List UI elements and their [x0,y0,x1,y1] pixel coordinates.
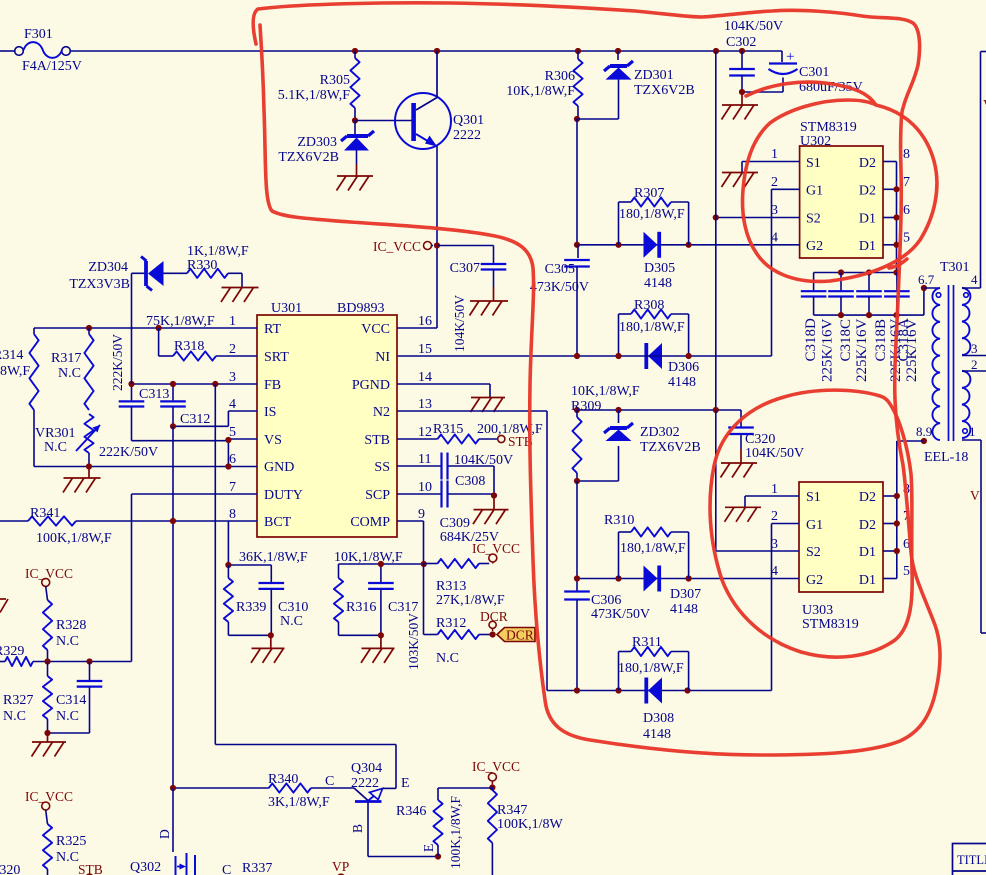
varistor VR301 [35,414,100,467]
svg-text:U301: U301 [271,301,302,316]
svg-text:104K/50V: 104K/50V [454,453,513,468]
svg-text:G1: G1 [806,184,823,199]
ground U302 pin1 [722,173,759,188]
wire R327 C314 bottom [48,732,90,734]
node C318 bottom [838,312,900,318]
wire U301 pin11 SS [397,465,442,467]
svg-text:VP: VP [332,859,349,874]
svg-text:DUTY: DUTY [264,488,303,503]
diode D307 [644,566,702,618]
transistor Q304 [325,761,410,802]
svg-text:225K/16V: 225K/16V [854,319,870,383]
resistor R305 [278,51,360,121]
node VS [225,437,231,443]
ground ZD303 [337,164,374,191]
svg-text:D2: D2 [859,156,876,171]
ground C308 C309 [473,496,509,525]
svg-text:Q304: Q304 [351,761,382,776]
svg-text:3K,1/8W,F: 3K,1/8W,F [268,795,330,810]
svg-text:8: 8 [229,507,236,522]
svg-text:1: 1 [771,482,778,497]
svg-text:2222: 2222 [351,776,379,791]
node C312 bottom [170,423,176,429]
wire BCT row [0,520,257,522]
label 10K [334,550,403,565]
node R347 top [489,784,495,790]
svg-text:DCR: DCR [480,609,508,624]
svg-text:ZD304: ZD304 [88,260,128,275]
net DCR flag [480,609,508,631]
net VP flag [332,859,349,875]
wire Q301 emitter to VCC [436,146,438,328]
svg-text:10K,1/8W,F: 10K,1/8W,F [506,84,575,99]
capacitor C301 [742,49,863,95]
svg-text:E: E [401,776,410,791]
label 320 partial [0,863,20,875]
node FB row [128,381,218,387]
label B rot [350,824,365,833]
wire R306 down to D305 row [576,119,578,245]
wire U301 pin10 SCP [397,493,442,495]
diode D306 [646,343,699,390]
svg-text:IC_VCC: IC_VCC [25,789,73,804]
svg-text:GND: GND [264,460,294,475]
svg-text:D306: D306 [668,360,699,375]
svg-text:100K,1/8W: 100K,1/8W [497,817,564,832]
svg-text:2222: 2222 [453,128,481,143]
wire Q304 base [368,802,438,857]
svg-text:SRT: SRT [264,350,289,365]
svg-text:STB: STB [78,862,103,875]
svg-text:6: 6 [903,203,910,218]
svg-text:C306: C306 [591,593,621,608]
node U302 drain pins [893,186,899,248]
svg-text:R340: R340 [268,772,298,787]
ground C301 C302 [722,92,759,120]
svg-text:R329: R329 [0,644,24,659]
svg-text:D2: D2 [859,184,876,199]
wire U301 pin9 COMP [397,521,424,564]
svg-text:C305: C305 [545,262,575,277]
svg-text:N.C: N.C [58,366,81,381]
resistor R340 [173,772,354,810]
svg-text:FB: FB [264,378,281,393]
svg-text:104K/50V: 104K/50V [724,19,783,34]
svg-text:F301: F301 [24,27,53,42]
labels C318 values [803,318,920,382]
svg-text:U303: U303 [802,603,833,618]
node DCR [490,631,496,637]
wire BCT to R339 [228,521,271,565]
capacitors C318D C318C C318B C318A [801,273,910,316]
svg-text:7: 7 [229,480,236,495]
svg-text:R309: R309 [571,399,601,414]
capacitor C320 [728,410,804,461]
net STB flag [498,434,533,449]
net STB flag bottom [78,862,103,875]
svg-text:473K/50V: 473K/50V [591,607,650,622]
diode D308 [643,678,674,743]
node C317 top [378,561,384,567]
svg-text:100K,1/8W,F: 100K,1/8W,F [448,795,463,869]
svg-text:S2: S2 [806,212,821,227]
resistor R314 [0,328,39,467]
svg-text:10: 10 [418,480,432,495]
wire T301 pin3 [962,355,986,357]
wire IS jog [173,411,257,426]
svg-text:ZD302: ZD302 [640,425,680,440]
resistor R330 [187,244,249,288]
svg-text:4: 4 [229,397,236,412]
wire C318 bottom bus [814,288,924,315]
svg-text:IC_VCC: IC_VCC [25,566,73,581]
ground C320 [721,449,758,478]
svg-text:C313: C313 [139,387,169,402]
wire COMP-R312 vertical [423,564,425,635]
wire FB-Q304 vertical [215,384,396,788]
wire U303 pin4 G2 / D307 row [577,578,799,580]
node R313 row [421,561,427,567]
node R339 top [225,562,231,568]
wire R313 row left [339,563,424,565]
svg-text:4148: 4148 [668,375,696,390]
svg-text:S1: S1 [806,490,821,505]
wire S-bus vertical [715,51,717,410]
svg-text:2: 2 [971,357,978,372]
svg-text:Q301: Q301 [453,113,484,128]
resistor R317 [51,328,94,410]
svg-text:VCC: VCC [361,322,390,337]
svg-text:N.C: N.C [56,634,79,649]
svg-text:C: C [222,863,231,875]
svg-text:COMP: COMP [350,515,390,530]
label 36K [239,550,308,565]
wire U302 pin3 S2 [716,217,800,219]
wire DUTY row [132,494,258,662]
node D308 row [574,687,691,693]
svg-text:S2: S2 [806,545,821,560]
svg-text:Q302: Q302 [130,860,161,875]
resistor R325 [43,810,86,875]
wire RT row [34,327,257,329]
svg-text:C307: C307 [450,261,480,276]
capacitor C308 [442,453,514,496]
node T301 pin89 [921,438,927,444]
svg-text:E: E [421,844,436,852]
svg-text:27K,1/8W,F: 27K,1/8W,F [436,593,505,608]
resistor R311 [618,635,689,691]
svg-text:104K/50V: 104K/50V [745,446,804,461]
svg-text:16: 16 [418,314,432,329]
net IC_VCC flag R313 [472,541,520,564]
svg-text:10K,1/8W,F: 10K,1/8W,F [334,550,403,565]
zener ZD304 [69,257,187,385]
label R337 [222,861,272,875]
node C318 top [838,269,900,275]
svg-text:5: 5 [903,231,910,246]
capacitor C312 [160,384,210,427]
label 103K rot [406,613,421,670]
node Q304 base-R346 [435,853,441,859]
svg-text:PGND: PGND [352,378,390,393]
IC U302 body [771,120,910,258]
svg-text:R316: R316 [346,600,376,615]
svg-text:100K,1/8W,F: 100K,1/8W,F [36,531,112,546]
svg-text:R347: R347 [497,803,527,818]
svg-text:1: 1 [771,147,778,162]
svg-text:1: 1 [969,424,976,439]
wire U302 pin4 G2 / D305 row [577,244,800,246]
IC U303 body [771,482,910,632]
resistor R327 [3,662,52,734]
wire U303 pin1 [745,496,799,507]
wire FB row [132,383,258,385]
ground partial left edge [0,599,8,613]
diode D305 [644,232,676,291]
svg-text:C312: C312 [180,412,210,427]
net IC_VCC R347 [472,759,520,784]
svg-text:F4A/125V: F4A/125V [22,59,82,74]
svg-text:D308: D308 [643,711,674,726]
svg-text:R313: R313 [436,579,466,594]
svg-text:R307: R307 [634,186,664,201]
svg-text:1K,1/8W,F: 1K,1/8W,F [187,244,249,259]
wire NI row [397,355,772,357]
svg-text:NI: NI [375,350,390,365]
ground U303 pin1 [725,507,762,522]
transformer T301 [916,260,978,465]
net IC_VCC R328 [25,566,73,586]
svg-text:15: 15 [418,342,432,357]
node GND row [86,463,232,469]
ground R327 C314 [32,733,67,757]
svg-text:TZX6V2B: TZX6V2B [278,150,339,165]
svg-text:IC_VCC: IC_VCC [373,239,421,254]
title block [953,844,986,875]
svg-text:STM8319: STM8319 [802,617,859,632]
svg-text:R308: R308 [634,298,664,313]
svg-text:4148: 4148 [670,602,698,617]
svg-text:12: 12 [418,425,432,440]
svg-text:3: 3 [229,370,236,385]
node R340 left [170,785,176,791]
svg-text:N.C: N.C [436,651,459,666]
resistor R316 [334,564,376,635]
resistor R308 [619,298,689,356]
svg-text:U302: U302 [800,134,831,149]
svg-text:VR301: VR301 [35,426,75,441]
zener ZD302 [604,410,701,481]
ground GND row [63,467,101,493]
svg-text:N.C: N.C [44,440,67,455]
capacitor C317 [368,564,418,635]
svg-text:N.C: N.C [280,614,303,629]
node T301 pin67 [918,272,935,291]
wire IC_VCC to C307 [432,246,494,264]
svg-text:222K/50V: 222K/50V [110,334,125,391]
svg-text:C318C: C318C [838,319,854,362]
svg-text:R341: R341 [30,506,60,521]
svg-text:R315: R315 [433,422,463,437]
resistor R312 [424,616,493,666]
svg-text:R310: R310 [604,513,634,528]
wire T301 pin4 [962,52,986,289]
svg-text:180,1/8W,F: 180,1/8W,F [618,661,684,676]
svg-text:75K,1/8W,F: 75K,1/8W,F [146,314,215,329]
node rail junctions [352,48,745,54]
wire U301 pin16 VCC [397,327,437,329]
svg-text:R346: R346 [396,804,426,819]
svg-text:R311: R311 [632,635,662,650]
zener ZD303 [278,121,374,166]
svg-text:2: 2 [771,509,778,524]
annotation giant loop [253,3,940,755]
wire U303 pin3 S2 [716,410,799,551]
capacitor C309 [440,481,499,546]
svg-text:R312: R312 [436,616,466,631]
annotation circle U302 [743,82,937,281]
svg-text:STB: STB [364,433,390,448]
svg-text:+: + [786,49,794,65]
svg-text:8: 8 [903,147,910,162]
svg-text:TZX3V3B: TZX3V3B [69,277,130,292]
wire U301 pin14 PGND [397,384,490,398]
wire VS stub [228,439,257,467]
node D305 row [574,242,692,248]
svg-text:C302: C302 [726,35,756,50]
transistor Q301 [395,51,484,149]
ground R330 [221,288,259,303]
svg-text:C308: C308 [455,474,485,489]
svg-text:IS: IS [264,405,276,420]
svg-text:R317: R317 [51,351,81,366]
svg-text:4148: 4148 [644,276,672,291]
svg-text:222K/50V: 222K/50V [99,445,158,460]
capacitor C306 [564,481,650,691]
svg-text:4: 4 [971,272,978,287]
wire GND row [34,466,257,468]
svg-text:N.C: N.C [56,709,79,724]
svg-text:10K,1/8W,F: 10K,1/8W,F [571,384,640,399]
svg-text:S1: S1 [806,156,821,171]
svg-text:TZX6V2B: TZX6V2B [634,83,695,98]
transistor Q302 [130,788,195,875]
wire C318 top bus [814,272,897,274]
svg-text:R306: R306 [545,69,575,84]
svg-text:R305: R305 [320,73,350,88]
svg-text:5: 5 [903,564,910,579]
ground C307 [470,287,509,316]
svg-text:BD9893: BD9893 [337,301,384,316]
svg-text:D307: D307 [670,587,701,602]
ground R339 C310 [251,635,285,663]
annotation circle U303 [710,390,912,657]
svg-text:DCR: DCR [506,628,534,643]
svg-text:R318: R318 [174,339,204,354]
svg-text:7: 7 [903,175,910,190]
svg-text:C314: C314 [56,693,86,708]
svg-text:180,1/8W,F: 180,1/8W,F [619,320,685,335]
wire R309-ZD302 bottom [574,478,619,484]
wire Q301 base [355,120,412,122]
wire U302 pin2 G1 [772,189,800,356]
wire IS-BCT vertical [172,426,174,788]
svg-text:C320: C320 [745,432,775,447]
svg-text:G2: G2 [806,239,823,254]
svg-text:C317: C317 [388,600,418,615]
svg-text:SCP: SCP [365,488,390,503]
svg-text:180,1/8W,F: 180,1/8W,F [619,207,685,222]
svg-text:13: 13 [418,397,432,412]
wire U303 drain bus [883,441,924,579]
svg-text:4148: 4148 [643,727,671,742]
resistor R341 [28,506,112,546]
node R327 bottom [44,730,50,736]
svg-text:C: C [325,774,334,789]
net IC_VCC R325 [25,789,73,810]
svg-text:N2: N2 [373,405,390,420]
svg-text:225K/16V: 225K/16V [904,319,920,383]
label C307 value [452,295,467,352]
resistor R307 [619,186,689,245]
resistor R318 [159,328,257,361]
node C302-C301 gnd [739,89,745,95]
svg-text:C318D: C318D [803,318,819,362]
svg-text:STM8319: STM8319 [800,120,857,135]
svg-text:473K/50V: 473K/50V [530,280,589,295]
wire U303 pin2 G1 [772,524,800,691]
svg-text:SS: SS [374,460,390,475]
capacitor C302 [724,19,783,92]
svg-text:R325: R325 [56,834,86,849]
wire U302 pin1 [742,162,800,173]
svg-text:D1: D1 [859,239,876,254]
svg-text:D2: D2 [859,490,876,505]
resistor R306 [506,51,582,119]
resistor R339 [224,565,267,635]
svg-text:C301: C301 [799,65,829,80]
capacitor C307 [450,261,507,287]
svg-text:5.1K,1/8W,F: 5.1K,1/8W,F [278,88,350,103]
wire ZD302 row [577,409,741,411]
fuse F301 [0,27,82,74]
svg-text:B: B [350,824,365,833]
svg-text:R328: R328 [56,618,86,633]
node BCT row [170,518,176,524]
node C317 bottom [378,632,384,638]
svg-text:8W,F: 8W,F [0,364,30,379]
wire R316 bottom [339,634,381,636]
node C308 C309 gnd [491,492,497,498]
svg-text:ZD303: ZD303 [297,135,337,150]
resistor R329 [0,644,132,666]
svg-text:G1: G1 [806,518,823,533]
resistor R313 [424,559,505,608]
resistor R328 [43,586,86,661]
capacitor C310 [259,565,309,635]
resistor R315 [397,422,543,444]
node RT row [86,325,162,331]
svg-text:RT: RT [264,322,281,337]
svg-text:BCT: BCT [264,515,292,530]
svg-text:ZD301: ZD301 [634,68,674,83]
resistor R346 [396,788,488,869]
svg-text:14: 14 [418,370,432,385]
wire U302 drain bus [883,162,897,273]
svg-text:R339: R339 [236,600,266,615]
wire R339 bottom [228,634,271,636]
capacitor C314 [56,662,102,734]
